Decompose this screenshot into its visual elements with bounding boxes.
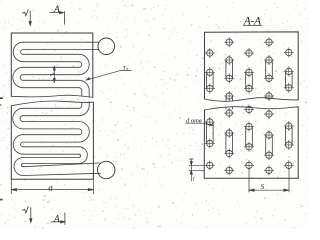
svg-text:А: А [53,214,60,224]
svg-text:t: t [193,177,195,183]
svg-text:Тд: Тд [123,65,128,71]
svg-text:a: a [48,182,53,192]
svg-text:А: А [53,5,60,15]
svg-text:S: S [261,182,265,191]
svg-text:d отв: d отв [186,118,202,125]
svg-text:А-А: А-А [243,15,262,27]
